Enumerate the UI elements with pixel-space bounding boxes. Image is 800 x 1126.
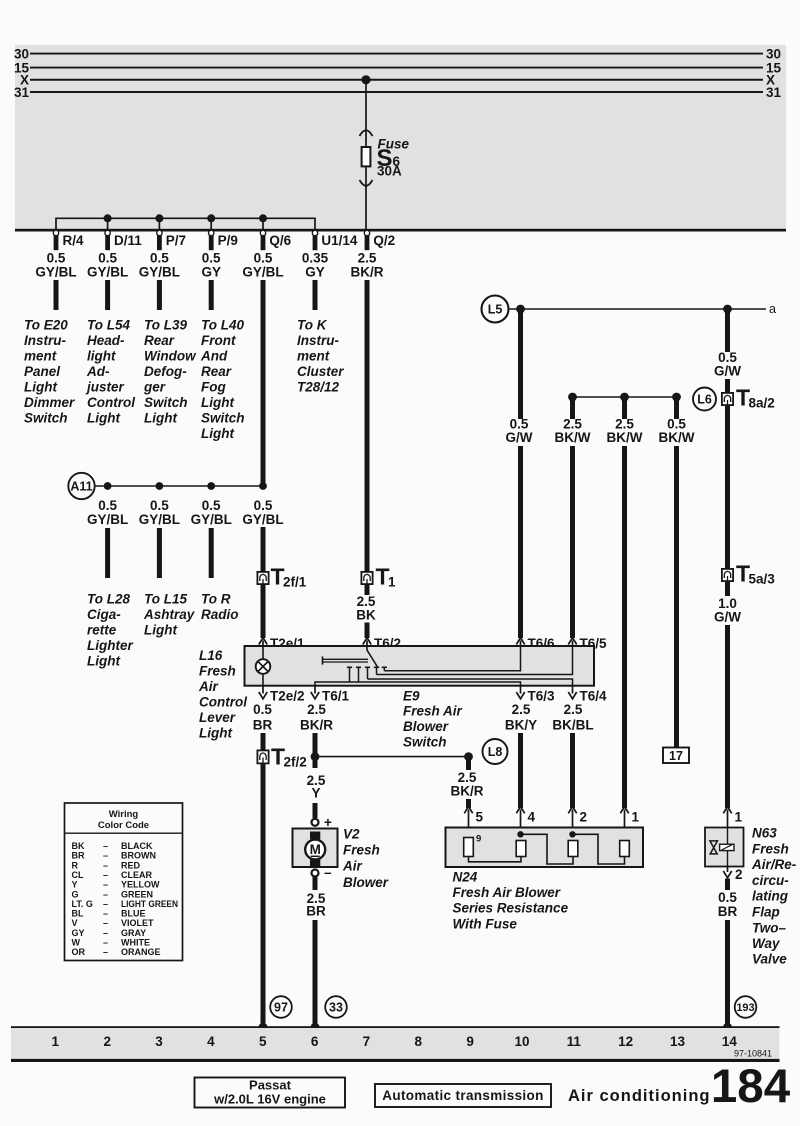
svg-text:97-10841: 97-10841	[734, 1049, 772, 1059]
label To L39 Rear Window Defogger Switch Light	[143, 318, 197, 426]
svg-text:T28/12: T28/12	[297, 380, 340, 395]
wire L5 rail to T8a/2	[725, 309, 730, 352]
svg-text:BK/R: BK/R	[300, 718, 333, 733]
color code names	[121, 841, 178, 957]
svg-text:BK: BK	[356, 608, 376, 623]
svg-text:BL: BL	[72, 909, 84, 919]
svg-text:GY/BL: GY/BL	[87, 512, 128, 527]
label To L15 Ashtray Light	[143, 592, 196, 638]
svg-text:Color Code: Color Code	[98, 820, 149, 831]
wire spec 0.5 GY/BL col R radio	[191, 498, 232, 527]
svg-text:2f/2: 2f/2	[284, 755, 307, 770]
svg-text:rette: rette	[87, 623, 117, 638]
connector rail above terminals	[56, 218, 315, 229]
wire T2f/2 to ground point 97	[261, 763, 266, 1027]
svg-text:8a/2: 8a/2	[749, 396, 775, 411]
svg-text:0.35: 0.35	[302, 251, 329, 266]
rail node Q/6	[259, 214, 267, 222]
wire spec 0.5 GY/BL col D/11	[87, 251, 128, 280]
resistor R1	[464, 838, 474, 857]
svg-text:juster: juster	[85, 380, 125, 395]
svg-text:–: –	[103, 918, 108, 928]
rail node T6/6 wire	[516, 305, 525, 314]
svg-text:–: –	[103, 938, 108, 948]
svg-text:L8: L8	[488, 745, 503, 759]
label N63 Fresh Air/Recirculating Flap Two-Way Valve	[751, 825, 797, 966]
svg-text:Two–: Two–	[752, 920, 786, 935]
wire spec 2.5 BR col V2	[306, 891, 326, 919]
N24 pin4 node	[517, 831, 523, 837]
svg-text:L16: L16	[199, 648, 223, 663]
resistor R4	[620, 841, 630, 857]
ground point 97	[270, 996, 292, 1018]
switch contact 1	[347, 667, 352, 682]
svg-text:Lever: Lever	[199, 710, 236, 725]
svg-text:w/2.0L 16V engine: w/2.0L 16V engine	[213, 1092, 326, 1107]
svg-text:0.5: 0.5	[150, 498, 169, 513]
svg-text:GREEN: GREEN	[121, 889, 153, 899]
svg-text:2: 2	[103, 1034, 111, 1049]
wire spec 1.0 G/W col N63	[714, 596, 741, 625]
wire spec 2.5 Y col V2	[307, 773, 326, 801]
svg-text:–: –	[103, 899, 108, 909]
svg-text:Light: Light	[201, 426, 234, 441]
wire spec 2.5 BK/BL col T6/4	[552, 702, 593, 733]
svg-text:–: –	[103, 889, 108, 899]
rail stub P/7	[158, 218, 160, 229]
svg-text:Light: Light	[144, 623, 177, 638]
wire contact1/2 to T6/1 and T6/3	[315, 682, 521, 686]
track strip bottom border	[11, 1059, 780, 1062]
wire node to N24 pin5	[466, 757, 471, 808]
svg-text:30: 30	[766, 46, 781, 61]
svg-text:CLEAR: CLEAR	[121, 870, 152, 880]
label To E20 Instrument Panel Light Dimmer Switch	[24, 318, 75, 426]
track numbers 1-14	[52, 1034, 738, 1049]
footer model text	[213, 1078, 326, 1107]
wire spec 0.35 GY col U1/14	[302, 251, 329, 280]
connector T5a/3 label	[736, 561, 775, 587]
svg-text:9: 9	[466, 1034, 474, 1049]
svg-text:4: 4	[528, 810, 536, 825]
svg-text:Rear: Rear	[201, 364, 232, 379]
svg-text:0.5: 0.5	[202, 251, 221, 266]
resistor R2	[516, 841, 526, 857]
svg-text:Control: Control	[199, 695, 247, 710]
node L5	[482, 296, 509, 323]
pin 2 arrow N63	[723, 867, 731, 878]
wire T8a/2 to T5a/3	[725, 405, 730, 569]
N24 pin2 node	[569, 831, 575, 837]
wire T2f/1 to T2e/1	[261, 584, 266, 638]
footer model box	[195, 1078, 346, 1108]
svg-text:–: –	[103, 851, 108, 861]
wire spec 2.5 BK col T1	[356, 594, 376, 623]
svg-text:Ciga-: Ciga-	[87, 607, 121, 622]
svg-text:To L28: To L28	[87, 592, 130, 607]
svg-text:BR: BR	[718, 904, 738, 919]
node L8	[483, 739, 508, 764]
svg-text:To K: To K	[297, 318, 328, 333]
wire spec 2.5 BK/Y col T6/3	[505, 702, 537, 733]
color code dashes	[103, 841, 108, 957]
label To R Radio	[201, 592, 239, 623]
wire to L15	[157, 528, 162, 578]
ground node 97	[259, 1023, 268, 1032]
svg-text:–: –	[103, 870, 108, 880]
svg-text:To L54: To L54	[87, 318, 130, 333]
wire spec 0.5 GY/BL col R/4	[35, 251, 76, 280]
V2 plus terminal	[312, 819, 319, 826]
rail stub D/11	[107, 218, 109, 229]
svg-text:11: 11	[567, 1034, 582, 1049]
bus X	[30, 79, 763, 81]
pin T2e/2 arrow	[259, 686, 267, 699]
motor V2 symbol	[305, 840, 325, 860]
svg-text:–: –	[103, 909, 108, 919]
rail node to N24 pin5	[315, 756, 469, 758]
rail from A11	[95, 485, 263, 487]
valve bowtie symbol	[710, 841, 718, 854]
rail node to L15	[156, 482, 164, 490]
N24 link R1 bottom to R2 bottom	[469, 857, 522, 862]
shaded supply band	[15, 45, 786, 230]
wire spec 2.5 BK/R col Q/2	[351, 251, 384, 280]
ground node 193	[723, 1023, 732, 1032]
svg-text:To L15: To L15	[144, 592, 187, 607]
svg-text:GRAY: GRAY	[121, 928, 146, 938]
wire stub above T8a/2	[725, 379, 730, 393]
svg-text:0.5: 0.5	[150, 251, 169, 266]
fuse 17 box	[663, 748, 689, 764]
svg-text:Defog-: Defog-	[144, 364, 187, 379]
wire to T6/2	[365, 623, 370, 639]
svg-text:W: W	[72, 938, 81, 948]
svg-text:Ad-: Ad-	[86, 364, 110, 379]
svg-text:Switch: Switch	[144, 395, 188, 410]
wire to V2 plus	[313, 803, 318, 818]
svg-text:ment: ment	[24, 349, 57, 364]
svg-text:BR: BR	[306, 904, 326, 919]
wire fuse to Q/2 terminal	[365, 166, 367, 229]
valve N63 box	[705, 828, 744, 867]
connector T1	[361, 572, 372, 584]
wire to E20 switch	[54, 280, 59, 310]
svg-text:Y: Y	[72, 880, 78, 890]
svg-text:GY/BL: GY/BL	[35, 265, 76, 280]
arrow up on fuse wire	[360, 130, 373, 136]
svg-text:VIOLET: VIOLET	[121, 918, 154, 928]
svg-text:1: 1	[735, 810, 743, 825]
svg-text:BR: BR	[72, 851, 85, 861]
svg-text:L6: L6	[697, 393, 712, 407]
ground point 193	[735, 996, 757, 1018]
resistor block N24 box	[446, 828, 644, 868]
svg-text:YELLOW: YELLOW	[121, 880, 160, 890]
rail node fuse17 wire	[672, 393, 681, 402]
svg-text:V: V	[72, 918, 78, 928]
svg-text:ORANGE: ORANGE	[121, 947, 161, 957]
svg-text:G/W: G/W	[506, 430, 533, 445]
pin 1 arrow N24	[620, 807, 628, 841]
svg-text:Light: Light	[144, 411, 177, 426]
svg-text:BK/BL: BK/BL	[552, 718, 593, 733]
svg-text:A11: A11	[70, 480, 92, 494]
svg-text:R: R	[72, 860, 79, 870]
wire N24 pin1 upper stub	[622, 397, 627, 419]
pin 5 arrow N24	[464, 807, 472, 838]
svg-text:Fresh Air Blower: Fresh Air Blower	[453, 885, 561, 900]
svg-text:0.5: 0.5	[254, 251, 273, 266]
resistor R3	[568, 841, 578, 857]
terminal U1/14	[312, 230, 317, 250]
rail node N63 wire	[723, 305, 732, 314]
svg-text:With Fuse: With Fuse	[453, 917, 518, 932]
svg-text:BK/W: BK/W	[607, 430, 643, 445]
wire L5 rail down	[518, 309, 523, 419]
label V2 Fresh Air Blower	[342, 826, 389, 889]
svg-text:D/11: D/11	[114, 233, 142, 248]
wire to L54 light	[105, 280, 110, 310]
svg-text:BK: BK	[72, 841, 85, 851]
N24 link pin4 to R3 bottom	[521, 834, 574, 864]
label L16 Fresh Air Control Lever Light	[198, 648, 247, 741]
svg-text:Light: Light	[199, 726, 232, 741]
rail node to L28	[104, 482, 112, 490]
svg-text:0.5: 0.5	[254, 498, 273, 513]
svg-text:Fresh: Fresh	[752, 841, 789, 856]
V2 brush bottom	[310, 860, 320, 868]
svg-text:L5: L5	[488, 303, 503, 317]
svg-text:LT. G: LT. G	[72, 899, 93, 909]
svg-text:2f/1: 2f/1	[283, 575, 307, 590]
svg-text:2: 2	[735, 867, 743, 882]
svg-text:a: a	[769, 302, 776, 316]
wire spec 2.5 BK/R col N24 pin5	[451, 770, 484, 799]
svg-text:GY/BL: GY/BL	[139, 512, 180, 527]
label To L28 Cigarette Lighter Light	[87, 592, 133, 669]
svg-text:BK/W: BK/W	[659, 430, 695, 445]
wire spec 0.5 GY/BL col L28	[87, 498, 128, 527]
pin 4 arrow N24	[516, 807, 524, 841]
svg-text:Light: Light	[87, 411, 120, 426]
svg-text:Switch: Switch	[24, 411, 68, 426]
svg-text:BLUE: BLUE	[121, 909, 146, 919]
svg-text:–: –	[103, 947, 108, 957]
svg-text:Passat: Passat	[249, 1078, 292, 1093]
svg-text:5: 5	[259, 1034, 267, 1049]
svg-text:Switch: Switch	[201, 411, 245, 426]
wire V2 minus stub	[313, 877, 318, 891]
pin T6/5 arrow	[568, 638, 576, 647]
rail of three BK/W wires	[573, 396, 677, 398]
terminal Q/6	[260, 230, 265, 250]
wire to fuse 17	[674, 446, 679, 748]
svg-text:GY/BL: GY/BL	[242, 512, 283, 527]
svg-text:Rear: Rear	[144, 333, 175, 348]
wire contact3 to T6/4	[368, 679, 573, 686]
wire spec 2.5 BK/W col N24 pin1	[607, 417, 643, 446]
svg-text:BK/R: BK/R	[351, 265, 384, 280]
pin T6/1 arrow	[311, 686, 319, 699]
terminal P/7	[157, 230, 162, 250]
connector T1 label	[376, 564, 397, 590]
svg-text:Light: Light	[87, 654, 120, 669]
wire bus X to fuse S6	[365, 80, 367, 147]
wire spec 0.5 GY/BL col P/7	[139, 251, 180, 280]
wire Q/6 node to T2f/1	[261, 527, 266, 572]
svg-text:R/4: R/4	[63, 233, 85, 248]
svg-text:T6/3: T6/3	[528, 689, 556, 704]
svg-text:17: 17	[669, 749, 683, 763]
bus 30	[30, 53, 763, 55]
svg-text:Fresh Air: Fresh Air	[403, 704, 463, 719]
svg-text:N24: N24	[453, 870, 478, 885]
svg-text:BROWN: BROWN	[121, 851, 156, 861]
wire T5a/3 lower stub	[725, 581, 730, 596]
svg-text:9: 9	[476, 834, 481, 845]
svg-text:Lighter: Lighter	[87, 638, 133, 653]
wire spec 0.5 GY/BL col L15	[139, 498, 180, 527]
svg-text:GY: GY	[305, 265, 325, 280]
svg-text:–: –	[103, 928, 108, 938]
svg-text:0.5: 0.5	[718, 890, 737, 905]
svg-text:Blower: Blower	[403, 719, 449, 734]
svg-text:33: 33	[329, 1001, 343, 1015]
junction on bus X	[361, 75, 370, 84]
svg-text:Instru-: Instru-	[24, 333, 67, 348]
wire N63 lower stub	[725, 879, 730, 891]
svg-text:1: 1	[632, 810, 640, 825]
svg-text:2: 2	[580, 810, 588, 825]
svg-text:–: –	[103, 841, 108, 851]
arrow down on fuse wire	[360, 180, 373, 186]
ground point 33	[325, 996, 347, 1018]
svg-text:LIGHT GREEN: LIGHT GREEN	[121, 899, 178, 909]
connector T5a/3	[722, 569, 733, 581]
svg-text:Control: Control	[87, 395, 135, 410]
wire to R radio	[209, 528, 214, 578]
wire Q/6 down to node A11 rail	[261, 280, 266, 486]
wire spec 0.5 GY/BL col Q/6 lower	[242, 498, 283, 527]
rail node P/7	[155, 214, 163, 222]
wire T6/3 to N24 pin4	[518, 733, 523, 808]
lamp L16 symbol	[256, 659, 271, 674]
svg-text:Wiring: Wiring	[109, 809, 139, 820]
wire spec 2.5 BK/W col T6/5	[555, 417, 591, 446]
svg-text:Window: Window	[144, 349, 197, 364]
label E9 Fresh Air Blower Switch	[403, 688, 463, 749]
svg-text:BLACK: BLACK	[121, 841, 153, 851]
svg-text:Dimmer: Dimmer	[24, 395, 75, 410]
track strip top border	[11, 1026, 780, 1028]
svg-text:N63: N63	[752, 825, 777, 840]
svg-text:30A: 30A	[377, 164, 402, 179]
wire contact5 to T6/6	[384, 646, 520, 671]
svg-text:V2: V2	[343, 826, 360, 841]
wire spec 0.5 G/W col N63	[714, 350, 741, 379]
svg-text:1: 1	[52, 1034, 60, 1049]
connector T2f/2 label	[271, 744, 307, 770]
svg-text:Air: Air	[198, 679, 219, 694]
svg-text:E9: E9	[403, 688, 420, 703]
svg-text:Instru-: Instru-	[297, 333, 340, 348]
svg-text:T6/1: T6/1	[322, 689, 350, 704]
svg-text:T6/4: T6/4	[580, 689, 608, 704]
label To K Instrument Cluster T28/12	[297, 318, 344, 395]
svg-text:10: 10	[514, 1034, 529, 1049]
wire to T6/6	[518, 446, 523, 638]
wire spec 0.5 GY/BL col Q/6	[242, 251, 283, 280]
color code title	[98, 809, 149, 831]
wiring color code box	[65, 803, 183, 961]
svg-text:G/W: G/W	[714, 610, 741, 625]
svg-text:Q/6: Q/6	[269, 233, 291, 248]
rail node N24 pin1 wire	[620, 393, 629, 402]
switch contact 5	[382, 667, 387, 670]
svg-text:0.5: 0.5	[98, 498, 117, 513]
svg-text:Light: Light	[24, 380, 57, 395]
svg-text:To E20: To E20	[24, 318, 68, 333]
svg-text:2.5: 2.5	[564, 702, 583, 717]
svg-text:Q/2: Q/2	[373, 233, 395, 248]
wire T2e/2 to T2f/2	[261, 733, 266, 751]
svg-text:WHITE: WHITE	[121, 938, 150, 948]
svg-text:ment: ment	[297, 349, 330, 364]
wire spec 0.5 GY col P/9	[201, 251, 221, 280]
svg-text:Panel: Panel	[24, 364, 60, 379]
svg-text:Cluster: Cluster	[297, 364, 344, 379]
svg-text:0.5: 0.5	[202, 498, 221, 513]
svg-text:Switch: Switch	[403, 735, 447, 750]
terminal R/4	[53, 230, 58, 250]
svg-text:1: 1	[388, 575, 396, 590]
svg-text:ger: ger	[143, 380, 166, 395]
svg-text:Ashtray: Ashtray	[143, 607, 196, 622]
connector T2f/1 label	[271, 564, 307, 590]
rail node to R radio	[207, 482, 215, 490]
wire to L40 light	[209, 280, 214, 310]
svg-text:Y: Y	[311, 786, 320, 801]
svg-text:Light: Light	[201, 395, 234, 410]
svg-text:5: 5	[476, 810, 484, 825]
band bottom border	[15, 229, 786, 232]
svg-text:4: 4	[207, 1034, 215, 1049]
wire to N63 pin1	[725, 625, 730, 808]
N24 link pin2 to R4 bottom	[573, 834, 625, 864]
svg-text:Blower: Blower	[343, 875, 389, 890]
svg-text:0.5: 0.5	[253, 702, 272, 717]
pin T6/2 arrow	[363, 638, 371, 647]
svg-text:Radio: Radio	[201, 607, 239, 622]
svg-text:GY: GY	[201, 265, 221, 280]
node above N24 pin5	[464, 752, 473, 761]
color code entries	[72, 841, 93, 957]
terminal D/11	[105, 230, 110, 250]
switch contact 4	[374, 667, 379, 674]
pin T2e/1 arrow	[259, 638, 267, 647]
rail node T6/5 wire	[568, 393, 577, 402]
svg-text:P/7: P/7	[166, 233, 186, 248]
svg-text:BK/Y: BK/Y	[505, 718, 537, 733]
pin 1 arrow N63	[723, 807, 731, 828]
rail node D/11	[104, 214, 112, 222]
valve actuator box	[720, 844, 734, 850]
node L6	[693, 388, 716, 411]
wire N63 to ground point 193	[725, 920, 730, 1027]
svg-text:0.5: 0.5	[47, 251, 66, 266]
svg-text:T2e/2: T2e/2	[270, 689, 305, 704]
